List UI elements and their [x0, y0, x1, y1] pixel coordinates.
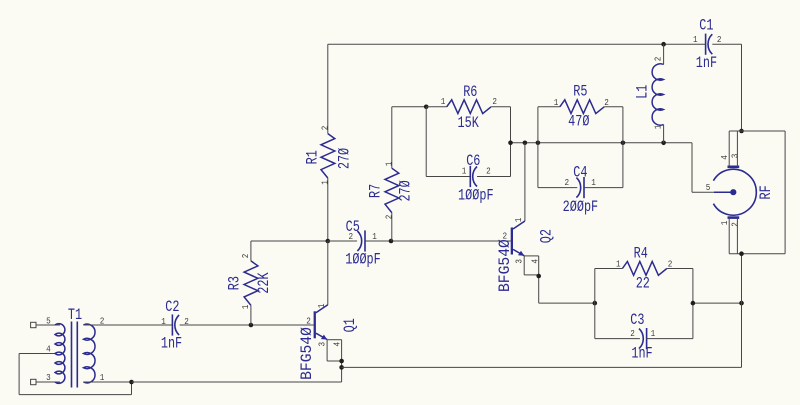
resistor R5	[560, 100, 604, 114]
svg-text:2: 2	[486, 165, 491, 176]
wire R7 bottom	[391, 213, 393, 241]
svg-text:1: 1	[316, 303, 327, 308]
junction C1/RF top node	[739, 129, 744, 134]
svg-text:15K: 15K	[458, 114, 480, 132]
svg-text:2: 2	[630, 328, 635, 339]
svg-text:2: 2	[319, 125, 330, 130]
svg-text:1: 1	[383, 161, 394, 166]
svg-text:2: 2	[565, 177, 570, 188]
svg-text:1: 1	[554, 97, 559, 108]
wire Q2 emitter box bottom	[524, 274, 539, 276]
junction Q2 emitter	[536, 274, 541, 279]
wire R1 top to rail	[327, 44, 329, 133]
junction right riser mid	[739, 301, 744, 306]
wire pin-4 loop left vertical	[18, 354, 20, 395]
capacitor C5	[364, 230, 366, 251]
junction Q1 emitter box	[339, 359, 344, 364]
wire mid to RF pin5 drop	[691, 143, 693, 192]
svg-text:1: 1	[441, 96, 446, 107]
wire C4 left	[538, 187, 577, 189]
resistor R7	[385, 168, 399, 212]
svg-text:1: 1	[372, 231, 377, 242]
svg-text:Q1: Q1	[341, 318, 359, 332]
wire bottom rail	[132, 381, 342, 383]
junction mid/R6C6	[508, 141, 513, 146]
svg-text:R6: R6	[463, 83, 477, 101]
svg-text:2: 2	[383, 214, 394, 219]
wire R7 top bend	[391, 107, 393, 168]
capacitor C1	[705, 34, 707, 55]
svg-text:R1: R1	[304, 150, 322, 164]
resistor R3	[244, 261, 258, 305]
svg-text:1: 1	[653, 124, 664, 129]
junction R7/R6 node	[424, 105, 429, 110]
svg-text:2: 2	[730, 222, 741, 227]
wire Q1 emitter box left	[326, 340, 328, 361]
svg-text:R5: R5	[573, 82, 587, 100]
wire RF pin5 horizontal	[692, 191, 714, 193]
wire Q2 collector	[524, 143, 526, 221]
wire C6 left	[426, 176, 470, 178]
wire top rail	[328, 43, 706, 45]
transistor Q1 BFG540	[314, 311, 316, 338]
svg-text:3: 3	[730, 153, 741, 158]
wire C6 right	[477, 176, 511, 178]
svg-text:2: 2	[306, 316, 311, 327]
svg-text:5: 5	[46, 316, 51, 327]
unconnected pin square P3	[31, 379, 36, 384]
wire R5C4 left edge	[537, 107, 539, 188]
svg-text:22K: 22K	[255, 272, 273, 294]
junction L1 top / top rail	[661, 42, 666, 47]
wire mid node line	[511, 142, 693, 144]
junction Q1 collector node	[326, 239, 331, 244]
wire pin-4 loop bottom	[19, 394, 131, 396]
svg-text:1: 1	[513, 217, 524, 222]
svg-text:C4: C4	[573, 164, 587, 182]
transistor Q2 BFG540	[511, 228, 513, 255]
svg-text:27Ø: 27Ø	[397, 180, 415, 201]
svg-text:2: 2	[668, 259, 673, 270]
wire Q2 emitter box right / pin 4 drop	[538, 256, 540, 303]
resistor R4	[622, 262, 666, 276]
transformer T1	[55, 322, 95, 388]
wire C1 drop to RF top	[741, 44, 743, 131]
wire T1 pin 4 to left	[19, 353, 55, 355]
wire Q1 emitter box right / pin 4 drop	[341, 340, 343, 382]
svg-text:5: 5	[706, 182, 711, 193]
wire R4C3 right edge	[692, 269, 694, 339]
wire R6 right stub	[491, 106, 510, 108]
junction R4C3 right mid	[691, 301, 696, 306]
wire R5 right stub	[604, 106, 623, 108]
junction R3 base node	[249, 323, 254, 328]
wire C3 right	[647, 338, 693, 340]
wire L1 bottom stub	[663, 125, 665, 143]
junction T1 bottom node	[129, 380, 134, 385]
wire C5 right to Q2 base	[365, 240, 511, 242]
svg-text:R7: R7	[366, 184, 384, 198]
resistor R6	[447, 100, 491, 114]
svg-text:BFG54Ø: BFG54Ø	[496, 239, 514, 292]
wire Q1 emitter box top	[327, 339, 342, 341]
svg-text:3: 3	[46, 372, 51, 383]
wire T1 pin 2 to C2	[83, 324, 172, 326]
svg-text:27Ø: 27Ø	[335, 148, 353, 169]
wire pin-4 loop riser	[131, 382, 133, 395]
svg-text:1ØØpF: 1ØØpF	[458, 186, 494, 204]
svg-text:2: 2	[240, 253, 251, 258]
junction mid/Q2 collector	[523, 141, 528, 146]
wire T1 pin 1 to junction	[83, 381, 131, 383]
svg-text:L1: L1	[634, 85, 652, 99]
wire L1 top stub	[663, 44, 665, 64]
wire R6 left stub	[426, 106, 447, 108]
svg-text:BFG54Ø: BFG54Ø	[298, 327, 316, 380]
junction Q2e/R4C3 left	[593, 301, 598, 306]
svg-text:2: 2	[503, 231, 508, 242]
wire C3 left	[595, 338, 640, 340]
wire Q2 emitter box top	[524, 255, 539, 257]
wire T1 pin 3 stub	[36, 381, 60, 383]
capacitor C2	[171, 314, 173, 335]
svg-text:T1: T1	[68, 306, 82, 324]
svg-text:2: 2	[653, 56, 664, 61]
svg-text:4: 4	[529, 259, 540, 264]
junction mid/L1	[661, 141, 666, 146]
svg-text:2: 2	[349, 231, 354, 242]
wire C4 right	[584, 187, 623, 189]
capacitor C6	[469, 166, 471, 187]
svg-text:1: 1	[693, 34, 698, 45]
svg-text:2ØØpF: 2ØØpF	[563, 198, 599, 216]
wire R6C6 left edge	[425, 107, 427, 177]
svg-text:22: 22	[636, 275, 650, 293]
inductor L1	[652, 64, 664, 125]
svg-text:1: 1	[651, 328, 656, 339]
junction RF bottom node	[739, 251, 744, 256]
wire R4C3 mid right	[693, 302, 742, 304]
svg-text:4: 4	[719, 155, 730, 160]
svg-text:1: 1	[719, 220, 730, 225]
svg-text:C1: C1	[699, 17, 713, 35]
wire right riser	[741, 254, 743, 368]
wire C2 to Q1 base	[180, 324, 314, 326]
wire R3 top bend horizontal	[251, 240, 328, 242]
svg-text:3: 3	[317, 342, 328, 347]
wire Q1 collector	[327, 241, 329, 305]
resistor R1	[321, 134, 335, 178]
svg-text:1: 1	[591, 177, 596, 188]
svg-text:3: 3	[514, 259, 525, 264]
svg-text:RF: RF	[757, 185, 775, 199]
wire C1 right	[712, 43, 741, 45]
wire R4 right stub	[667, 268, 693, 270]
svg-text:1nF: 1nF	[161, 334, 182, 352]
svg-text:1: 1	[240, 304, 251, 309]
capacitor C4	[583, 177, 585, 198]
svg-text:1: 1	[462, 165, 467, 176]
wire RF pin 4 drop	[728, 131, 730, 167]
wire right edge	[784, 131, 786, 254]
wire Q2 emitter box left	[523, 256, 525, 275]
svg-text:4: 4	[332, 342, 343, 347]
svg-text:2: 2	[492, 96, 497, 107]
capacitor C3	[646, 328, 648, 349]
wire Q2 emitter to R4C3	[539, 302, 595, 304]
junction C5/R7 node	[389, 239, 394, 244]
wire RF pin 2 riser	[736, 218, 738, 254]
svg-text:2: 2	[717, 34, 722, 45]
svg-text:2: 2	[604, 97, 609, 108]
wire R6C6 right edge	[510, 107, 512, 177]
connector RF	[713, 167, 756, 218]
svg-text:4: 4	[46, 344, 51, 355]
wire R4C3 left edge	[594, 269, 596, 339]
junction Q1 emitter wire	[339, 365, 344, 370]
svg-text:R3: R3	[226, 276, 244, 290]
wire RF pin 1 riser	[728, 218, 730, 254]
wire RF top loop	[729, 130, 785, 132]
svg-text:1nF: 1nF	[696, 54, 717, 72]
wire R3 bottom stub	[250, 305, 252, 325]
svg-text:47Ø: 47Ø	[568, 113, 589, 131]
svg-text:C3: C3	[630, 311, 644, 329]
wire RF bottom loop	[729, 253, 785, 255]
junction mid/R5C4 left	[536, 141, 541, 146]
svg-text:Q2: Q2	[538, 229, 556, 243]
wire C5 left	[328, 240, 357, 242]
wire R1 bottom	[327, 178, 329, 241]
svg-text:1: 1	[319, 180, 330, 185]
wire R5 left stub	[538, 106, 560, 108]
svg-text:1nF: 1nF	[631, 344, 652, 362]
svg-text:R4: R4	[634, 244, 648, 262]
wire Q1 emitter box bottom	[327, 360, 342, 362]
junction mid/R5C4 right	[621, 141, 626, 146]
svg-text:1: 1	[161, 316, 166, 327]
svg-text:1ØØpF: 1ØØpF	[345, 251, 381, 269]
svg-text:1: 1	[100, 372, 105, 383]
wire R3 top stub	[250, 241, 252, 261]
svg-text:C2: C2	[165, 298, 179, 316]
svg-text:C6: C6	[466, 152, 480, 170]
unconnected pin square P5	[31, 322, 36, 327]
wire Q1 emitter line to right riser	[342, 366, 742, 368]
wire R5C4 right edge	[622, 107, 624, 188]
svg-text:1: 1	[616, 259, 621, 270]
wire R4 left stub	[595, 268, 623, 270]
wire T1 pin 5 stub	[36, 324, 60, 326]
wire RF pin 3 drop	[736, 131, 738, 167]
